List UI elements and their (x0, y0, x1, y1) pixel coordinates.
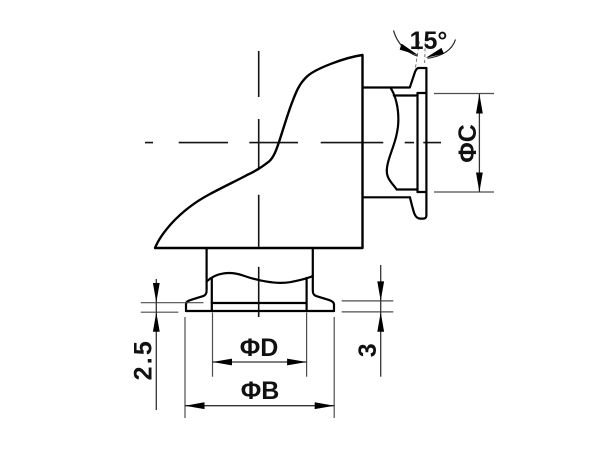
ext line 2.5 bottom (141, 311, 179, 313)
ext line 2.5 top (141, 302, 204, 304)
ext line 3 bottom (342, 311, 394, 313)
ext line PhiD right (306, 313, 308, 377)
15 degree annotation (394, 27, 456, 68)
arrow PhiD left (213, 359, 233, 366)
bottom flange: right bore edge (306, 278, 308, 311)
bottom flange: right neck line (313, 248, 334, 311)
right flange: gasket face line (416, 93, 418, 192)
dim line PhiC (478, 94, 480, 192)
svg-text:ΦB: ΦB (241, 377, 280, 405)
dimension extension lines (thin) (141, 94, 494, 419)
right flange: top jog line (418, 92, 427, 94)
right flange: outline (410, 68, 427, 219)
ext line 3 top (342, 300, 394, 302)
arrow 3 up (377, 312, 384, 332)
dimension lines (thin) (156, 94, 479, 410)
arrow PhiD right (287, 359, 307, 366)
bottom flange: left bore edge (211, 279, 213, 311)
arrow PhiB right (315, 402, 335, 409)
arrow PhiC up (476, 94, 483, 114)
svg-text:ΦC: ΦC (454, 124, 482, 163)
ext line PhiC top (434, 93, 494, 95)
ext line PhiC bottom (434, 191, 494, 193)
bottom flange: bottom face (186, 310, 334, 312)
horizontal centerline (145, 142, 441, 144)
arrow 3 down (377, 281, 384, 301)
ext line PhiB right (333, 317, 335, 418)
vertical centerline (258, 51, 260, 317)
bottom flange: left neck line (186, 248, 334, 311)
right flange: break wave (387, 88, 399, 190)
dimension texts (130, 124, 483, 405)
dim line PhiD (213, 361, 307, 363)
dim line 3 (380, 265, 382, 377)
svg-text:15°: 15° (410, 27, 448, 55)
right flange: bottom bore line (397, 188, 418, 190)
arrowheads (153, 94, 483, 409)
15deg dashed ref line right (424, 39, 427, 64)
dim line 2.5 (155, 279, 157, 410)
arrow PhiC down (476, 173, 483, 193)
right flange (363, 68, 427, 219)
15deg dashed ref line left (416, 39, 420, 68)
right flange: top bore line (394, 94, 418, 96)
arrow 2.5 up (153, 312, 160, 332)
arrow PhiB left (185, 402, 205, 409)
15deg left arrowhead (400, 44, 419, 56)
right flange: bottom jog line (418, 191, 427, 193)
ext line PhiD left (212, 313, 214, 377)
15deg left arc (394, 31, 418, 57)
ext line PhiB left (184, 317, 186, 418)
right flange: neck top line (363, 86, 410, 88)
svg-text:2.5: 2.5 (130, 339, 158, 380)
bottom flange: break wave (207, 273, 313, 283)
arrow 2.5 down (153, 283, 160, 303)
svg-text:ΦD: ΦD (240, 334, 279, 362)
15deg right arrowhead (426, 48, 444, 58)
15deg right arc (428, 40, 456, 59)
elbow body outline (155, 55, 363, 248)
dim line PhiB (185, 405, 334, 407)
svg-text:3: 3 (354, 343, 382, 357)
bottom flange: gasket face line (212, 302, 307, 304)
right flange: neck bottom line (363, 196, 411, 198)
